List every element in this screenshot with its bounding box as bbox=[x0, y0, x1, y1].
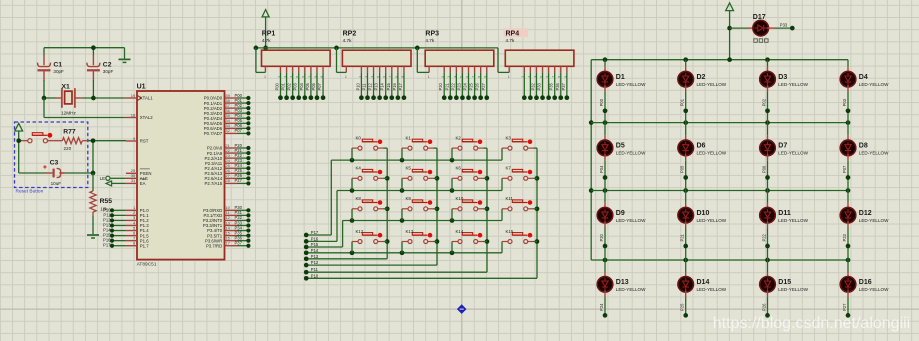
push button K14 bbox=[452, 229, 487, 253]
capacitor C1 bbox=[38, 55, 65, 81]
wire RP1 pin1 branch bbox=[256, 48, 266, 73]
svg-text:P26: P26 bbox=[761, 303, 766, 311]
push button K12 bbox=[352, 229, 387, 253]
svg-text:19: 19 bbox=[131, 93, 136, 98]
svg-text:D11: D11 bbox=[778, 210, 791, 217]
LED D15 LED-YELLOW bbox=[760, 260, 809, 318]
svg-text:30pF: 30pF bbox=[103, 69, 114, 74]
svg-text:C3: C3 bbox=[50, 160, 59, 167]
wire RP3 pin1 branch bbox=[417, 48, 429, 73]
svg-text:P27: P27 bbox=[481, 82, 486, 90]
svg-text:P3.7/RD: P3.7/RD bbox=[206, 243, 222, 248]
wire XTAL2 net bbox=[44, 98, 126, 118]
push button K1 bbox=[402, 135, 437, 160]
svg-text:K5: K5 bbox=[406, 166, 412, 171]
svg-text:EA: EA bbox=[140, 181, 146, 186]
svg-text:P23: P23 bbox=[842, 233, 847, 241]
svg-text:D16: D16 bbox=[859, 279, 872, 286]
svg-text:4.7k: 4.7k bbox=[343, 38, 353, 43]
svg-text:K8: K8 bbox=[356, 196, 362, 201]
push button K6 bbox=[452, 166, 487, 191]
svg-text:P04: P04 bbox=[599, 165, 604, 173]
svg-text:D15: D15 bbox=[778, 279, 791, 286]
svg-text:K0: K0 bbox=[356, 135, 362, 140]
svg-text:LED-YELLOW: LED-YELLOW bbox=[778, 218, 808, 223]
svg-text:4.7k: 4.7k bbox=[425, 38, 435, 43]
svg-text:LED-YELLOW: LED-YELLOW bbox=[616, 82, 646, 87]
svg-text:17: 17 bbox=[225, 241, 230, 246]
svg-text:P17: P17 bbox=[103, 243, 111, 248]
svg-text:P14: P14 bbox=[311, 248, 319, 253]
wire LED row bus 3 bbox=[591, 188, 850, 193]
origin marker bbox=[457, 304, 467, 314]
svg-text:P00: P00 bbox=[275, 82, 280, 90]
svg-text:P20: P20 bbox=[599, 233, 604, 241]
svg-text:K9: K9 bbox=[406, 196, 412, 201]
svg-text:D3: D3 bbox=[778, 74, 787, 81]
LED D7 LED-YELLOW bbox=[760, 123, 809, 191]
svg-text:LED-YELLOW: LED-YELLOW bbox=[859, 287, 889, 292]
svg-text:P21: P21 bbox=[444, 82, 449, 90]
svg-text:P02: P02 bbox=[287, 82, 292, 90]
svg-text:LED-YELLOW: LED-YELLOW bbox=[697, 151, 727, 156]
wire RP supply bus bbox=[254, 46, 510, 73]
svg-text:32: 32 bbox=[225, 128, 230, 133]
LED D17 heartbeat bbox=[747, 14, 776, 42]
svg-text:D1: D1 bbox=[616, 74, 625, 81]
svg-text:P20: P20 bbox=[438, 82, 443, 90]
svg-text:4.7k: 4.7k bbox=[506, 38, 516, 43]
svg-text:D13: D13 bbox=[616, 279, 629, 286]
power terminal (RP bus) bbox=[262, 10, 269, 51]
svg-text:D5: D5 bbox=[616, 143, 625, 150]
node P17 bbox=[304, 230, 331, 237]
push button K15 bbox=[502, 229, 537, 253]
LED D12 LED-YELLOW bbox=[840, 191, 889, 261]
svg-text:P15: P15 bbox=[311, 242, 319, 247]
svg-text:P07: P07 bbox=[235, 128, 243, 133]
LED D1 LED-YELLOW bbox=[597, 60, 646, 123]
U1 left pin stubs bbox=[126, 98, 137, 246]
svg-text:P35: P35 bbox=[549, 82, 554, 90]
U1 pin numbers bbox=[131, 93, 231, 246]
LED D8 LED-YELLOW bbox=[840, 123, 889, 191]
push button K10 bbox=[452, 196, 487, 220]
svg-text:K12: K12 bbox=[356, 229, 364, 234]
wire keypad columns bbox=[387, 148, 537, 278]
svg-text:U1: U1 bbox=[137, 84, 146, 91]
power terminal (LED matrix / D17) bbox=[726, 3, 734, 62]
svg-text:P01: P01 bbox=[680, 98, 685, 106]
svg-text:P1.7: P1.7 bbox=[140, 243, 149, 248]
svg-text:D14: D14 bbox=[697, 279, 710, 286]
svg-text:D6: D6 bbox=[697, 143, 706, 150]
svg-text:K1: K1 bbox=[406, 135, 412, 140]
LED D11 LED-YELLOW bbox=[760, 191, 809, 261]
ALE pin terminal LE bbox=[100, 176, 126, 181]
svg-text:P16: P16 bbox=[392, 82, 397, 90]
push button K2 bbox=[452, 135, 487, 160]
svg-text:LED-YELLOW: LED-YELLOW bbox=[778, 82, 808, 87]
LED D5 LED-YELLOW bbox=[597, 123, 646, 191]
node P15 bbox=[304, 242, 343, 249]
svg-text:P06: P06 bbox=[311, 82, 316, 90]
svg-text:K6: K6 bbox=[456, 166, 462, 171]
wire XTAL1 net bbox=[42, 80, 126, 100]
push button K11 bbox=[502, 196, 537, 220]
svg-text:LED-YELLOW: LED-YELLOW bbox=[616, 218, 646, 223]
push button K9 bbox=[402, 196, 437, 220]
wire reset button left bbox=[16, 138, 46, 173]
LED D6 LED-YELLOW bbox=[678, 123, 727, 191]
svg-text:P33: P33 bbox=[537, 82, 542, 90]
push button K8 bbox=[352, 196, 387, 220]
wire LED row bus 1 bbox=[591, 57, 848, 62]
wire crystal ground bus bbox=[44, 45, 125, 58]
svg-text:P24: P24 bbox=[599, 303, 604, 311]
svg-text:P05: P05 bbox=[680, 165, 685, 173]
LED D14 LED-YELLOW bbox=[678, 260, 727, 318]
LED D13 LED-YELLOW bbox=[597, 260, 646, 318]
push button (reset) bbox=[22, 133, 53, 143]
wire RST net bbox=[61, 138, 126, 175]
ground (R55) bbox=[87, 216, 99, 238]
LED D3 LED-YELLOW bbox=[760, 60, 809, 123]
svg-text:RST: RST bbox=[140, 139, 149, 144]
LED D4 LED-YELLOW bbox=[840, 60, 889, 123]
wire LED row bus 4 bbox=[591, 258, 850, 263]
push button K4 bbox=[352, 166, 387, 191]
svg-text:28: 28 bbox=[225, 178, 230, 183]
svg-text:P21: P21 bbox=[680, 233, 685, 241]
svg-text:D2: D2 bbox=[697, 74, 706, 81]
LED D16 LED-YELLOW bbox=[840, 260, 889, 318]
svg-text:LED-YELLOW: LED-YELLOW bbox=[616, 151, 646, 156]
svg-text:1: 1 bbox=[428, 75, 430, 79]
capacitor C3 bbox=[43, 160, 64, 186]
resistor pack RP2 4.7k bbox=[342, 31, 411, 100]
svg-text:P13: P13 bbox=[374, 82, 379, 90]
svg-text:LED-YELLOW: LED-YELLOW bbox=[697, 218, 727, 223]
node P12 bbox=[304, 260, 437, 267]
svg-text:P04: P04 bbox=[299, 82, 304, 90]
svg-text:K2: K2 bbox=[456, 135, 462, 140]
svg-text:220: 220 bbox=[64, 146, 72, 151]
svg-text:31: 31 bbox=[131, 178, 136, 183]
svg-text:1: 1 bbox=[508, 75, 510, 79]
svg-text:P26: P26 bbox=[475, 82, 480, 90]
svg-text:LED-YELLOW: LED-YELLOW bbox=[616, 287, 646, 292]
wire keypad row risers bbox=[331, 160, 342, 247]
svg-text:P03: P03 bbox=[842, 98, 847, 106]
svg-text:LED-YELLOW: LED-YELLOW bbox=[697, 287, 727, 292]
node P14 bbox=[304, 248, 502, 255]
svg-text:LED-YELLOW: LED-YELLOW bbox=[859, 82, 889, 87]
svg-text:X1: X1 bbox=[62, 83, 71, 90]
LED D10 LED-YELLOW bbox=[678, 191, 727, 261]
svg-text:P14: P14 bbox=[380, 82, 385, 90]
U1 pin names bbox=[140, 96, 223, 249]
LED D9 LED-YELLOW bbox=[597, 191, 646, 261]
svg-text:LED-YELLOW: LED-YELLOW bbox=[859, 151, 889, 156]
U1 right pin stubs bbox=[225, 98, 238, 246]
svg-text:C1: C1 bbox=[53, 62, 62, 69]
node P10 bbox=[304, 273, 537, 280]
wire D17 anode bbox=[730, 27, 747, 29]
svg-text:P23: P23 bbox=[456, 82, 461, 90]
keypad junctions bbox=[350, 158, 540, 255]
svg-text:RP1: RP1 bbox=[262, 31, 276, 38]
svg-text:P02: P02 bbox=[761, 98, 766, 106]
svg-text:P07: P07 bbox=[317, 82, 322, 90]
svg-text:P33: P33 bbox=[780, 23, 788, 28]
svg-text:LE: LE bbox=[100, 176, 105, 181]
svg-text:P32: P32 bbox=[530, 82, 535, 90]
svg-text:P05: P05 bbox=[305, 82, 310, 90]
push button K13 bbox=[402, 229, 437, 253]
svg-text:P00: P00 bbox=[599, 98, 604, 106]
svg-text:P2.7/A15: P2.7/A15 bbox=[205, 181, 223, 186]
power terminal (reset) bbox=[15, 123, 23, 140]
svg-text:D10: D10 bbox=[697, 210, 710, 217]
svg-text:P24: P24 bbox=[463, 82, 468, 90]
resistor pack RP3 4.7k bbox=[425, 31, 494, 100]
svg-text:P22: P22 bbox=[761, 233, 766, 241]
wire keypad row lines bbox=[331, 160, 502, 220]
wire LED matrix left vertical bbox=[589, 60, 594, 260]
svg-text:1: 1 bbox=[264, 75, 266, 79]
capacitor C2 bbox=[87, 55, 114, 81]
svg-text:K14: K14 bbox=[456, 229, 464, 234]
push button K0 bbox=[352, 135, 387, 160]
svg-text:1: 1 bbox=[345, 75, 347, 79]
svg-text:P12: P12 bbox=[368, 82, 373, 90]
svg-text:K7: K7 bbox=[506, 166, 512, 171]
svg-text:P27: P27 bbox=[235, 178, 243, 183]
svg-text:P25: P25 bbox=[680, 303, 685, 311]
svg-text:RP4: RP4 bbox=[506, 31, 520, 38]
ground (crystal bus) bbox=[119, 59, 131, 62]
svg-text:K15: K15 bbox=[506, 229, 514, 234]
reset button enclosure box bbox=[15, 122, 88, 195]
IC U1 AT89C51 bbox=[126, 84, 237, 268]
svg-text:D17: D17 bbox=[753, 14, 766, 21]
U1 P1 pin wires and net labels bbox=[103, 207, 126, 248]
node P11 bbox=[304, 267, 487, 274]
svg-text:K13: K13 bbox=[406, 229, 414, 234]
svg-text:LED-YELLOW: LED-YELLOW bbox=[778, 151, 808, 156]
node P33 bbox=[776, 23, 795, 31]
svg-text:LED-YELLOW: LED-YELLOW bbox=[778, 287, 808, 292]
svg-text:P07: P07 bbox=[842, 165, 847, 173]
svg-text:P01: P01 bbox=[281, 82, 286, 90]
svg-text:P0.7/AD7: P0.7/AD7 bbox=[204, 131, 223, 136]
svg-text:30pF: 30pF bbox=[53, 69, 64, 74]
svg-text:P37: P37 bbox=[235, 241, 243, 246]
resistor pack RP1 4.7k bbox=[262, 31, 331, 100]
svg-text:D9: D9 bbox=[616, 210, 625, 217]
svg-text:D12: D12 bbox=[859, 210, 872, 217]
svg-text:P06: P06 bbox=[761, 165, 766, 173]
resistor R77 bbox=[53, 129, 88, 151]
crystal X1 bbox=[56, 83, 82, 115]
svg-text:XTAL2: XTAL2 bbox=[140, 115, 153, 120]
svg-text:P12: P12 bbox=[311, 260, 319, 265]
svg-text:P10: P10 bbox=[311, 273, 319, 278]
U1 right pin wires and net labels bbox=[235, 93, 251, 248]
svg-text:K11: K11 bbox=[506, 196, 514, 201]
svg-text:P11: P11 bbox=[311, 267, 319, 272]
svg-text:P03: P03 bbox=[293, 82, 298, 90]
svg-text:D7: D7 bbox=[778, 143, 787, 150]
svg-text:RP2: RP2 bbox=[343, 31, 357, 38]
node P16 bbox=[304, 236, 337, 243]
svg-text:D8: D8 bbox=[859, 143, 868, 150]
svg-text:https://blog.csdn.net/alongiii: https://blog.csdn.net/alongiii bbox=[713, 315, 910, 332]
svg-text:P11: P11 bbox=[361, 83, 366, 91]
EA pin terminal bbox=[106, 181, 126, 186]
resistor R55 bbox=[90, 173, 112, 216]
svg-text:P25: P25 bbox=[469, 82, 474, 90]
push button K3 bbox=[502, 135, 537, 160]
wire LED row bus 2 bbox=[591, 120, 850, 125]
LED D2 LED-YELLOW bbox=[678, 60, 727, 123]
svg-text:P17: P17 bbox=[398, 82, 403, 90]
svg-text:C2: C2 bbox=[103, 62, 112, 69]
svg-text:D4: D4 bbox=[859, 74, 868, 81]
svg-text:Reset Button: Reset Button bbox=[16, 189, 44, 195]
svg-text:P13: P13 bbox=[311, 254, 319, 259]
svg-text:K3: K3 bbox=[506, 135, 512, 140]
wire RP2 pin1 branch bbox=[337, 48, 347, 73]
svg-text:K10: K10 bbox=[456, 196, 464, 201]
svg-text:R77: R77 bbox=[63, 129, 76, 136]
svg-text:AT89C51: AT89C51 bbox=[137, 261, 157, 267]
svg-text:P22: P22 bbox=[450, 82, 455, 90]
push button K7 bbox=[502, 166, 537, 191]
svg-text:P15: P15 bbox=[386, 82, 391, 90]
resistor pack RP4 4.7k bbox=[504, 28, 574, 100]
svg-text:18: 18 bbox=[131, 112, 136, 117]
svg-text:K4: K4 bbox=[356, 166, 362, 171]
node P13 bbox=[304, 254, 387, 261]
svg-text:P17: P17 bbox=[311, 230, 319, 235]
svg-text:R55: R55 bbox=[100, 198, 113, 205]
svg-text:P36: P36 bbox=[555, 82, 560, 90]
svg-text:12MHz: 12MHz bbox=[61, 110, 77, 115]
push button K5 bbox=[402, 166, 437, 191]
svg-text:P27: P27 bbox=[842, 303, 847, 311]
svg-text:4.7k: 4.7k bbox=[262, 38, 272, 43]
svg-text:XTAL1: XTAL1 bbox=[140, 96, 153, 101]
svg-text:LED-YELLOW: LED-YELLOW bbox=[859, 218, 889, 223]
svg-text:10uF: 10uF bbox=[51, 181, 62, 186]
svg-text:P37: P37 bbox=[561, 82, 566, 90]
svg-text:RP3: RP3 bbox=[425, 31, 439, 38]
svg-text:LED-YELLOW: LED-YELLOW bbox=[697, 82, 727, 87]
svg-text:P16: P16 bbox=[311, 236, 319, 241]
svg-text:P10: P10 bbox=[355, 82, 360, 90]
